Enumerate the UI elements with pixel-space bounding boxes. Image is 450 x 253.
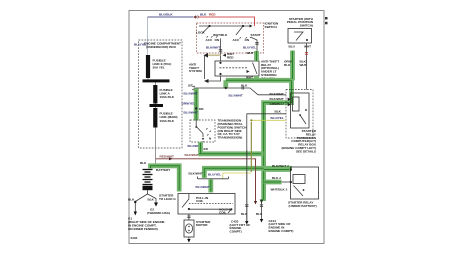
svg-text:(UNDER BATTERY): (UNDER BATTERY): [289, 204, 317, 208]
svg-text:BLK: BLK: [200, 12, 207, 16]
green stubs into starter relay: [264, 164, 291, 191]
fusible link 1: [146, 55, 171, 78]
svg-text:LOCK: LOCK: [196, 30, 206, 34]
starter cut relay 2 box: [286, 90, 313, 139]
relay output BLK to C420: [230, 110, 287, 234]
svg-text:WHT/BLK: WHT/BLK: [213, 33, 228, 37]
green run B: [189, 168, 293, 178]
svg-text:ON INNER FENDER): ON INNER FENDER): [128, 227, 158, 231]
connector C1: [193, 12, 207, 18]
svg-text:BLK: BLK: [275, 110, 282, 114]
wire RED/WHT drop to C428: [254, 159, 257, 205]
svg-text:WHT/BLK 2: WHT/BLK 2: [271, 188, 288, 192]
svg-text:TO LEAD G: TO LEAD G: [159, 197, 176, 201]
binding marks: [325, 17, 328, 24]
svg-text:30A YEL: 30A YEL: [153, 66, 165, 70]
svg-text:GRN/BLU: GRN/BLU: [270, 102, 285, 106]
svg-text:MOTOR: MOTOR: [196, 223, 208, 227]
svg-text:ACC: ACC: [206, 38, 213, 42]
svg-text:BLK: BLK: [256, 212, 263, 216]
anti-theft relay U1: [215, 61, 259, 76]
relay input labels: [270, 92, 291, 106]
clutch pedal position switch label: [287, 17, 314, 28]
battery positive green path: [151, 166, 180, 192]
wire labels ORN BLK: [284, 59, 307, 66]
transmission position switch: [190, 120, 215, 142]
green START wire into relay: [247, 51, 257, 61]
svg-text:100A BLK: 100A BLK: [160, 95, 175, 99]
fusible link 3: [153, 108, 177, 128]
feed wire through fuse box: [148, 55, 156, 164]
svg-text:COIL: COIL: [219, 211, 227, 215]
svg-text:BATTERY: BATTERY: [156, 168, 171, 172]
svg-text:COIL: COIL: [196, 199, 204, 203]
svg-text:BLU/YEL: BLU/YEL: [208, 173, 221, 177]
svg-text:BLK: BLK: [284, 63, 291, 67]
svg-text:BLK/WHT 2: BLK/WHT 2: [272, 164, 289, 168]
svg-text:BLU/YEL: BLU/YEL: [271, 116, 284, 120]
battery ground wires: [128, 190, 156, 212]
svg-text:0294: 0294: [131, 236, 138, 240]
anti-theft system branch: [189, 55, 221, 83]
fusible link 2: [153, 85, 175, 104]
ignition switch arm 1: [196, 26, 228, 61]
svg-text:BLU/WHT: BLU/WHT: [184, 92, 198, 96]
svg-text:WHT: WHT: [300, 63, 307, 67]
ground G2: [147, 203, 170, 216]
starter solenoid box: [178, 194, 235, 215]
starter relay under battery: [288, 167, 319, 208]
connector line under run B: [198, 177, 229, 179]
green wire BLU/WHT down to transmission switch: [182, 89, 205, 121]
ignition switch box: [197, 22, 280, 53]
engine compartment fuse box: [139, 40, 183, 148]
svg-text:S/T: S/T: [188, 84, 193, 88]
wire RED/WHT branch: [156, 155, 257, 161]
svg-text:COMPT): COMPT): [230, 230, 242, 234]
starter motor M1: [184, 214, 211, 237]
svg-text:BLK/WHT: BLK/WHT: [189, 171, 203, 175]
svg-text:100A BLK: 100A BLK: [160, 119, 175, 123]
bus bar 2: [150, 104, 164, 107]
ground G1 arrow: [128, 212, 165, 231]
svg-text:BLK/WHT: BLK/WHT: [185, 153, 199, 157]
green wire from clutch switch: [290, 51, 295, 81]
svg-text:ON: ON: [245, 38, 250, 42]
svg-text:SYSTEM: SYSTEM: [189, 69, 202, 73]
wire BLU/YEL yellow: [208, 116, 286, 179]
green run A to right vertical: [188, 142, 264, 154]
svg-text:BLU/WHT: BLU/WHT: [196, 185, 210, 189]
svg-text:(UNDERHOOD) BOX: (UNDERHOOD) BOX: [146, 45, 177, 49]
border frame: [129, 11, 324, 244]
svg-text:RED/WHT: RED/WHT: [160, 155, 175, 159]
svg-text:WHT: WHT: [246, 76, 253, 80]
wire BLU/YEL olive overlay: [250, 122, 252, 172]
svg-text:BLU/YEL: BLU/YEL: [243, 46, 256, 50]
svg-text:ACC: ACC: [233, 38, 240, 42]
svg-text:ON: ON: [215, 38, 220, 42]
green stub to solenoid: [196, 179, 211, 192]
ignition switch arm 2: [233, 26, 261, 51]
green long vertical ground tail: [241, 200, 293, 234]
svg-text:BLU/BLK: BLU/BLK: [159, 12, 173, 16]
relay label text: [281, 129, 316, 153]
svg-text:BLK/WHT: BLK/WHT: [270, 97, 284, 101]
clutch pedal position switch S1: [288, 29, 312, 49]
ignition connector ticks: [206, 43, 259, 52]
svg-text:SEE DETAILS: SEE DETAILS: [296, 149, 316, 153]
starter motor ground: [187, 237, 190, 243]
svg-text:ENGINE COMPT): ENGINE COMPT): [269, 229, 294, 233]
svg-text:BLK/WHT: BLK/WHT: [206, 46, 220, 50]
svg-text:BLU/WHT: BLU/WHT: [184, 110, 198, 114]
transmission switch label: [218, 119, 248, 140]
svg-text:SWITCH): SWITCH): [300, 24, 313, 28]
svg-text:WHT: WHT: [247, 51, 254, 55]
wire from clutch switch right pin: [305, 43, 308, 90]
ignition bus: [199, 25, 253, 28]
wire S/T line: [188, 84, 286, 98]
svg-text:KB: KB: [199, 107, 204, 111]
wire BLK overlay to C420: [246, 150, 248, 222]
svg-text:BLK: BLK: [140, 161, 147, 165]
svg-text:BLK: BLK: [128, 198, 135, 202]
svg-text:SWITCH: SWITCH: [265, 25, 278, 29]
svg-text:WHT: WHT: [304, 45, 311, 49]
svg-text:BLU: BLU: [289, 45, 296, 49]
svg-text:ORN/YEL: ORN/YEL: [182, 101, 196, 105]
starter assembly label: [159, 193, 176, 200]
battery: [140, 161, 171, 190]
bus bar 1: [143, 79, 170, 82]
svg-text:RED: RED: [209, 12, 216, 16]
svg-text:BLK 2: BLK 2: [272, 176, 281, 180]
svg-text:START: START: [251, 33, 261, 37]
wire RED top: [199, 12, 255, 26]
svg-text:EB: EB: [204, 147, 209, 151]
svg-text:(THERMO HSG): (THERMO HSG): [147, 211, 170, 215]
green relay output + top horizontal: [225, 76, 292, 201]
svg-text:BLU/WHT: BLU/WHT: [229, 93, 243, 97]
svg-text:BLK: BLK: [148, 198, 155, 202]
anti-theft relay label: [261, 59, 279, 80]
wire WHT/RED tan arrow: [204, 52, 235, 59]
wire RED/WHT overlay: [255, 159, 257, 202]
svg-text:RED: RED: [227, 55, 234, 59]
svg-text:BLK/WHT: BLK/WHT: [270, 92, 284, 96]
svg-text:TRANSMISSION): TRANSMISSION): [218, 136, 243, 140]
wire BLU/BLK top: [148, 12, 194, 55]
